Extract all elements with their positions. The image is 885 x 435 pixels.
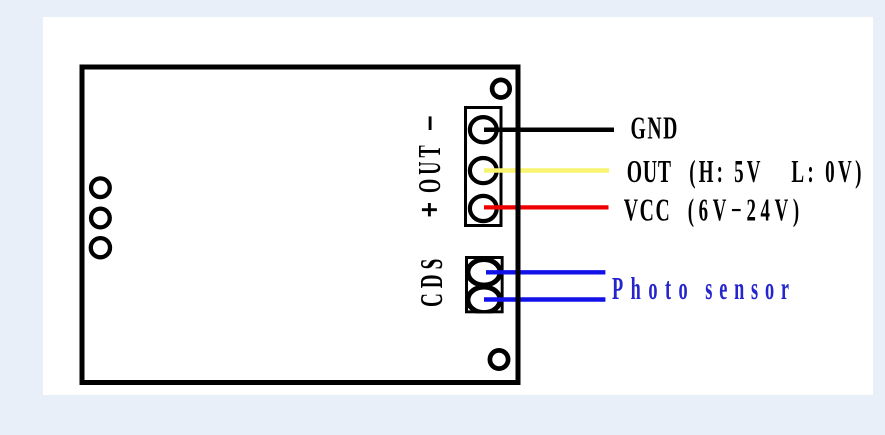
J2 pin 1 (CDS): [468, 260, 500, 286]
label plus sign (vertical): [428, 203, 431, 216]
svg-text:L: 0V): L: 0V): [791, 154, 864, 189]
wire CDS 1 (blue): [486, 270, 605, 274]
svg-text:Photo: Photo: [612, 271, 695, 306]
CDS header J2 body: [467, 258, 503, 312]
J1 pin 2 (OUT): [470, 158, 497, 183]
svg-text:OUT: OUT: [412, 141, 447, 193]
J1 pin 3 (VCC): [470, 196, 497, 221]
hole H2 (left column middle): [91, 209, 110, 228]
wire VCC (red): [484, 205, 609, 209]
PCB board outline: [82, 67, 518, 383]
output header J1 body: [466, 108, 502, 226]
svg-text:(6V−24V): (6V−24V): [688, 192, 804, 227]
J2 pin 2 (CDS): [468, 287, 500, 313]
label minus sign (vertical): [429, 116, 432, 130]
wire OUT (yellow): [484, 168, 609, 173]
svg-text:sensor: sensor: [705, 271, 795, 306]
svg-text:GND: GND: [631, 110, 679, 145]
J1 pin 1 (GND): [470, 117, 497, 142]
svg-text:(H: 5V: (H: 5V: [689, 154, 763, 189]
board right edge over wires: [516, 67, 521, 383]
mounting hole bottom-right: [490, 350, 508, 368]
svg-text:CDS: CDS: [414, 254, 449, 307]
hole H3 (left column bottom): [91, 238, 110, 257]
wire CDS 2 (blue): [484, 297, 605, 301]
mounting hole top-right: [492, 80, 510, 98]
hole H1 (left column top): [91, 178, 110, 197]
svg-text:OUT: OUT: [627, 154, 672, 189]
svg-text:VCC: VCC: [624, 192, 672, 227]
wire GND (black): [484, 127, 614, 132]
